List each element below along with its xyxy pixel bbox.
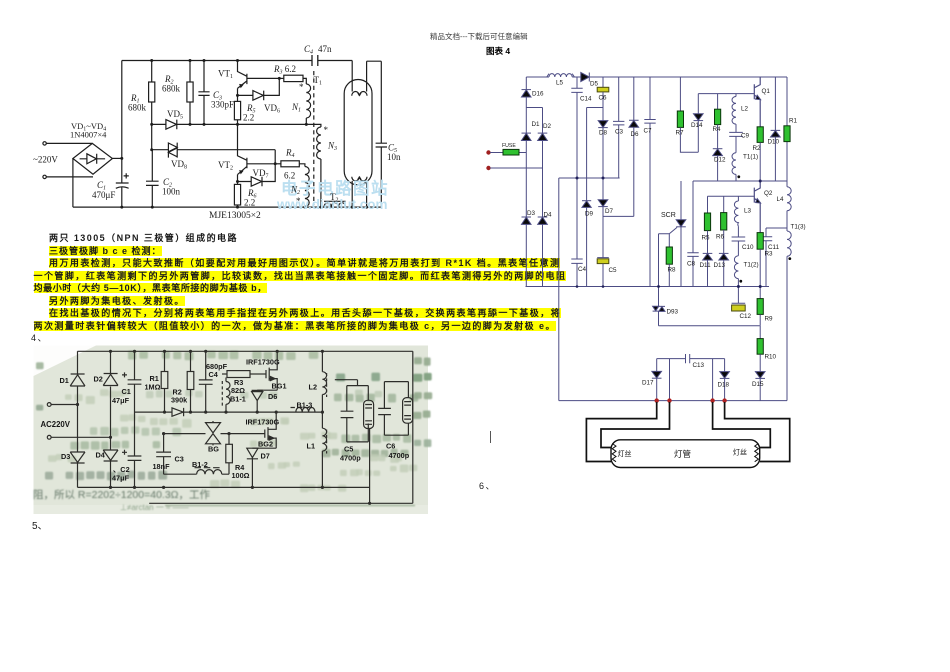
diode D13 <box>719 253 729 260</box>
resistor R5 <box>234 101 240 119</box>
capacitor C2s <box>122 450 141 488</box>
inductor L4 <box>787 187 791 211</box>
svg-text:L2: L2 <box>309 383 318 392</box>
svg-text:4700p: 4700p <box>340 454 361 463</box>
svg-text:灯丝: 灯丝 <box>733 448 747 457</box>
svg-text:C4: C4 <box>578 266 587 273</box>
svg-text:N3: N3 <box>327 141 337 153</box>
resistor R2s <box>190 351 192 371</box>
wire lamp right outer <box>725 402 790 462</box>
wire lamp left outer <box>586 402 656 462</box>
diode D10 <box>771 77 781 130</box>
svg-text:VD7: VD7 <box>253 168 269 180</box>
svg-text:L4: L4 <box>777 196 785 203</box>
diode D5s <box>172 408 184 416</box>
svg-text:C10: C10 <box>742 244 754 251</box>
watermark <box>276 178 389 212</box>
svg-text:47μF: 47μF <box>112 474 130 483</box>
svg-text:D2: D2 <box>94 375 103 384</box>
svg-text:N1: N1 <box>291 102 301 114</box>
svg-text:D11: D11 <box>700 262 712 269</box>
capacitor C13 <box>657 354 725 363</box>
paragraph line 6 highlighted <box>49 296 185 307</box>
diode D1 <box>522 133 532 140</box>
svg-text:R4: R4 <box>713 126 722 133</box>
winding B1-1 <box>226 378 230 413</box>
paragraph line 3 highlighted <box>49 258 560 269</box>
diode D8 <box>598 121 608 128</box>
svg-text:BG2: BG2 <box>258 440 273 449</box>
winding T1-3 <box>787 231 791 256</box>
labels scan circuit <box>41 358 410 483</box>
winding B1-3 <box>291 408 316 413</box>
T1 core dashed <box>313 71 315 205</box>
svg-text:C6: C6 <box>599 95 608 102</box>
svg-text:*: * <box>324 125 329 135</box>
capacitor C8 <box>687 181 698 287</box>
svg-text:D3: D3 <box>61 452 70 461</box>
diode VD7 <box>238 164 276 186</box>
wire mid line <box>152 123 318 125</box>
svg-text:VT1: VT1 <box>218 69 233 81</box>
fuse FU <box>490 152 526 154</box>
svg-text:680k: 680k <box>162 84 181 94</box>
svg-text:C9: C9 <box>741 133 750 140</box>
inductor L5 <box>526 74 581 77</box>
paragraph line 2 highlighted <box>49 246 162 257</box>
svg-text:47μF: 47μF <box>112 396 130 405</box>
svg-text:T1(3): T1(3) <box>791 224 806 231</box>
wire Q1 base line <box>698 93 754 95</box>
svg-text:D13: D13 <box>714 262 726 269</box>
svg-text:C4: C4 <box>304 44 313 56</box>
svg-text:R6: R6 <box>716 234 725 241</box>
wire second column <box>526 108 542 287</box>
paragraph line 1 <box>49 233 238 244</box>
svg-text:C6: C6 <box>386 442 395 451</box>
svg-text:灯管: 灯管 <box>674 449 691 459</box>
wire bottom bus <box>73 206 381 208</box>
svg-text:Q2: Q2 <box>764 190 773 197</box>
svg-text:D7: D7 <box>605 208 614 215</box>
svg-text:BG1: BG1 <box>272 382 287 391</box>
resistor R3 <box>279 77 284 79</box>
svg-text:R7: R7 <box>676 130 685 137</box>
svg-text:R4: R4 <box>285 148 295 160</box>
svg-text:C11: C11 <box>768 244 780 251</box>
svg-text:B1-1: B1-1 <box>230 395 246 404</box>
transistor Q1 <box>754 77 760 127</box>
lamp tube body <box>611 440 760 468</box>
labels right circuit <box>502 80 806 389</box>
diode D2s <box>103 374 118 386</box>
svg-text:18nF: 18nF <box>153 462 171 471</box>
component labels left circuit <box>33 44 401 221</box>
filament right <box>755 444 759 462</box>
wire gate bus scan <box>164 433 265 435</box>
winding B1-2 <box>164 468 229 475</box>
list item 4 <box>31 333 48 344</box>
svg-text:L5: L5 <box>556 80 564 87</box>
svg-text:B1-2: B1-2 <box>192 460 208 469</box>
paragraph line 8 highlighted <box>34 321 556 332</box>
svg-text:D16: D16 <box>532 91 544 98</box>
svg-text:R2: R2 <box>753 145 762 152</box>
wire VD8 line <box>152 150 276 164</box>
capacitor C10 <box>732 237 746 256</box>
wire top bus <box>122 60 382 63</box>
svg-text:D17: D17 <box>642 380 654 387</box>
lamp wiring black <box>586 402 789 462</box>
svg-text:C13: C13 <box>693 362 705 369</box>
svg-text:SCR: SCR <box>661 212 676 219</box>
scanned paper background <box>34 346 429 515</box>
svg-text:D6: D6 <box>268 392 277 401</box>
bridge inner diode <box>80 154 106 164</box>
scanned circuit <box>47 350 413 505</box>
paragraph line 7 highlighted <box>49 308 561 319</box>
wire scan bottom edge <box>149 502 413 504</box>
resistor R4s <box>228 434 230 445</box>
resistor R1s <box>164 351 166 371</box>
diode D6s <box>252 390 263 412</box>
triac BG <box>206 421 221 445</box>
svg-text:4700p: 4700p <box>389 451 410 460</box>
svg-text:D4: D4 <box>96 451 106 460</box>
inductor L3 <box>734 196 738 237</box>
capacitor C12 yellow <box>732 287 746 304</box>
resistor R4 <box>275 163 281 165</box>
tube symbol 1 <box>364 400 374 428</box>
transistor VT2 <box>238 124 276 184</box>
svg-text:灯丝: 灯丝 <box>618 449 632 458</box>
svg-text:L2: L2 <box>741 106 749 113</box>
resistor R3b <box>757 233 763 250</box>
wire bridge to C1 <box>112 157 121 159</box>
svg-text:VD6: VD6 <box>264 103 280 115</box>
resistor R4b <box>717 94 719 110</box>
svg-text:AC220V: AC220V <box>41 420 71 429</box>
red node dots <box>655 398 727 402</box>
list item 6 <box>479 481 496 492</box>
wire mid bus y181 <box>693 180 787 182</box>
svg-text:IRF1730G: IRF1730G <box>246 358 280 367</box>
resistor R2 <box>189 61 191 83</box>
mosfet BG2 <box>252 412 276 448</box>
svg-text:MJE13005×2: MJE13005×2 <box>209 211 261 221</box>
tube symbol 2 <box>403 398 413 424</box>
svg-text:T1(2): T1(2) <box>744 262 759 269</box>
svg-text:1N4007×4: 1N4007×4 <box>70 130 107 140</box>
capacitor C4 <box>312 55 318 66</box>
wire Q2 base line <box>708 195 755 197</box>
capacitor C5s <box>341 411 354 417</box>
diode D93 <box>658 287 660 307</box>
resistor R3s <box>222 373 227 375</box>
terminal circles <box>43 142 46 145</box>
wire DC minus rail <box>72 159 74 208</box>
diode D18 <box>724 359 726 372</box>
diode D7s <box>247 448 258 487</box>
junction dots blue <box>576 177 762 289</box>
svg-text:R5: R5 <box>702 235 711 242</box>
svg-text:FUSE: FUSE <box>502 143 516 149</box>
svg-text:C12: C12 <box>740 313 752 320</box>
diode D4 <box>538 217 548 224</box>
paragraph line 5 highlighted <box>34 283 267 294</box>
transistor VT1 <box>238 61 280 102</box>
svg-text:C7: C7 <box>644 128 653 135</box>
inductor L2s <box>322 351 326 428</box>
inductor L2 <box>732 94 736 133</box>
resistor R5b <box>707 196 709 213</box>
svg-text:D1: D1 <box>60 376 69 385</box>
tube bottom pins and filament <box>352 177 367 207</box>
svg-text:470μF: 470μF <box>92 190 115 200</box>
inductor L1s <box>322 428 326 487</box>
diode D17 <box>656 359 658 372</box>
junction dots scan <box>76 350 371 505</box>
capacitor C9 <box>729 132 743 152</box>
svg-text:47n: 47n <box>318 44 332 54</box>
svg-text:L1: L1 <box>307 442 316 451</box>
wire scan ground bus <box>78 486 370 488</box>
diode D16 <box>522 90 532 97</box>
text cursor bar <box>490 431 491 443</box>
capacitor C6s <box>378 408 391 414</box>
svg-text:390k: 390k <box>171 396 188 405</box>
diode D4s <box>103 450 118 461</box>
diode D14 <box>697 94 699 114</box>
svg-text:R9: R9 <box>765 316 774 323</box>
tube top pins and filament <box>352 61 367 96</box>
svg-text:R3: R3 <box>765 251 774 258</box>
fluorescent tube <box>344 80 372 185</box>
resistor R6b <box>723 196 725 212</box>
wire bridge column 2 <box>110 351 112 487</box>
svg-text:IRF1730G: IRF1730G <box>246 418 280 427</box>
svg-text:R10: R10 <box>765 354 777 361</box>
svg-text:1MΩ: 1MΩ <box>145 383 161 392</box>
winding T1-1 <box>732 153 736 181</box>
svg-text:D3: D3 <box>527 210 536 217</box>
resistor R8b <box>666 247 672 264</box>
capacitor C2 <box>146 150 159 207</box>
wire lamp right inner <box>713 402 771 448</box>
resistor R7 <box>679 77 681 111</box>
wire left tall column <box>559 178 620 401</box>
svg-text:VD5: VD5 <box>167 109 183 121</box>
diode D1s <box>70 374 85 386</box>
svg-text:2.2: 2.2 <box>243 113 254 123</box>
svg-text:D93: D93 <box>667 309 679 316</box>
wire lamp column b <box>712 359 714 401</box>
diode D7 <box>602 128 604 200</box>
svg-text:T1: T1 <box>314 75 323 87</box>
wire scan right edge <box>412 351 414 503</box>
svg-text:L3: L3 <box>744 208 752 215</box>
diode D3 <box>522 217 532 224</box>
capacitor C3b <box>613 77 624 178</box>
filament left <box>612 444 616 462</box>
diode D15 <box>755 372 765 379</box>
wire mid bus scan <box>135 411 323 413</box>
svg-text:D5: D5 <box>590 81 599 88</box>
svg-text:C1: C1 <box>122 387 131 396</box>
svg-text:VT2: VT2 <box>218 160 233 172</box>
wire bottom bus <box>559 400 787 402</box>
svg-text:*: * <box>296 196 301 206</box>
svg-text:VD8: VD8 <box>171 159 187 171</box>
capacitor C1s <box>122 351 141 456</box>
svg-text:D9: D9 <box>585 211 594 218</box>
wire lamp column a <box>669 359 671 401</box>
svg-text:T1(1): T1(1) <box>743 154 758 161</box>
inductor T2 <box>324 201 346 207</box>
wire lamp left inner <box>601 402 670 448</box>
mosfet BG1 <box>257 351 277 390</box>
svg-text:BG: BG <box>208 445 219 454</box>
diode D5 <box>581 73 590 82</box>
diode D3s <box>70 452 85 463</box>
right edge column <box>786 77 788 401</box>
svg-text:R8: R8 <box>668 267 677 274</box>
transistor Q2 <box>754 181 760 233</box>
resistor R2b <box>757 127 763 143</box>
svg-text:D18: D18 <box>718 382 730 389</box>
figure caption 图表4 <box>486 46 510 57</box>
svg-text:D7: D7 <box>261 452 270 461</box>
list item 5 <box>32 521 48 532</box>
svg-text:330pF: 330pF <box>211 100 234 110</box>
svg-text:D14: D14 <box>691 122 703 129</box>
svg-text:B1-3: B1-3 <box>297 401 313 410</box>
wire AC terminals scan <box>51 405 111 438</box>
svg-text:Q1: Q1 <box>762 88 771 95</box>
resistor R1b <box>784 126 790 142</box>
wire top bus <box>589 76 787 78</box>
wire main bus y286 <box>526 286 770 288</box>
svg-text:D15: D15 <box>752 381 764 388</box>
diode VD6 <box>238 78 280 100</box>
svg-text:C4: C4 <box>209 370 219 379</box>
svg-text:C14: C14 <box>580 96 592 103</box>
svg-text:R1: R1 <box>789 118 798 125</box>
svg-text:~220V: ~220V <box>33 155 58 165</box>
diode D2 <box>538 133 548 140</box>
diac VD8 <box>168 143 177 158</box>
wire C5 loop <box>335 380 370 504</box>
resistor R6 <box>234 184 240 205</box>
diode VD5 <box>166 120 177 130</box>
svg-text:C5: C5 <box>344 445 353 454</box>
resistor R1 <box>151 61 153 83</box>
svg-text:C3: C3 <box>615 129 624 136</box>
wire bridge column 1 <box>77 351 79 487</box>
thyristor SCR <box>680 181 682 220</box>
capacitor C3s <box>156 434 171 475</box>
paragraph line 4 highlighted <box>34 271 567 282</box>
svg-text:D4: D4 <box>544 212 553 219</box>
svg-text:10n: 10n <box>387 152 401 162</box>
wire to N3 <box>318 124 321 127</box>
junction dots <box>120 59 368 209</box>
svg-text:D1: D1 <box>532 121 541 128</box>
wire AC2 <box>490 167 543 169</box>
capacitor C6 yellow <box>602 77 604 87</box>
capacitor C5 yellow <box>597 207 609 258</box>
svg-text:R3 6.2: R3 6.2 <box>273 64 296 76</box>
svg-text:2.2: 2.2 <box>244 198 255 208</box>
svg-text:C3: C3 <box>175 455 184 464</box>
svg-text:C8: C8 <box>687 261 696 268</box>
svg-text:*: * <box>299 82 304 92</box>
header note <box>430 31 528 42</box>
capacitor C4s <box>199 351 213 412</box>
wire AC terminals <box>46 143 93 177</box>
diode D11 <box>703 253 713 260</box>
svg-text:100n: 100n <box>162 187 181 197</box>
winding N2 <box>305 167 309 208</box>
wire left rail <box>121 61 123 208</box>
capacitor C5 <box>376 61 387 207</box>
wire scan top bus <box>78 350 413 352</box>
winding T1-2 <box>734 256 738 287</box>
svg-text:D6: D6 <box>631 131 640 138</box>
svg-text:100Ω: 100Ω <box>232 471 250 480</box>
svg-text:D10: D10 <box>768 139 780 146</box>
diode D12 <box>713 148 723 150</box>
svg-text:C5: C5 <box>609 267 618 274</box>
resistor R9b <box>759 287 761 299</box>
capacitor C1 <box>116 173 129 188</box>
bleed-through text <box>33 351 432 512</box>
svg-text:D8: D8 <box>599 130 608 137</box>
lamp labels <box>618 448 748 460</box>
capacitor C14 <box>571 77 582 287</box>
bridge rectifier VD1-VD4 diamond <box>73 143 113 174</box>
capacitor C7 <box>644 77 655 287</box>
resistor R10b <box>759 326 761 339</box>
wire left column <box>525 77 527 287</box>
terminal dots <box>486 150 490 154</box>
diode D6 <box>629 77 639 120</box>
svg-text:D2: D2 <box>543 123 552 130</box>
capacitor C11 <box>760 228 787 287</box>
wire C6 loop <box>384 382 408 436</box>
svg-text:阻，所以 R=2202÷1200=40.3Ω，工作: 阻，所以 R=2202÷1200=40.3Ω，工作 <box>33 489 211 501</box>
svg-text:680k: 680k <box>128 103 147 113</box>
svg-text:⊥≠arctan 一 ≈ ——: ⊥≠arctan 一 ≈ —— <box>120 503 189 512</box>
diode D9 column <box>587 108 603 201</box>
capacitor C3 <box>198 61 209 125</box>
winding N1 <box>306 84 310 124</box>
winding N3 <box>317 127 321 207</box>
svg-text:6.2: 6.2 <box>284 171 295 181</box>
svg-text:D12: D12 <box>714 157 726 164</box>
